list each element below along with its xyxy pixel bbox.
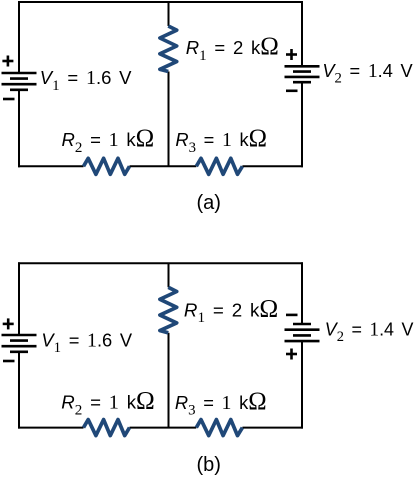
plus sign V2 (b) xyxy=(286,349,297,360)
wire right top (b) xyxy=(301,262,303,324)
minus sign V1 (b) xyxy=(3,360,15,363)
svg-text:(a): (a) xyxy=(197,192,221,214)
wire middle top (a) xyxy=(168,2,170,26)
resistor R3 (a) xyxy=(196,158,242,174)
wire left top (a) xyxy=(18,1,20,73)
battery V2 (a) xyxy=(285,66,320,82)
wire right bottom (b) xyxy=(301,341,303,429)
wire bottom middle (a) xyxy=(130,165,197,167)
battery V1 (b) xyxy=(2,335,37,352)
wire top (a) xyxy=(18,1,303,3)
wire bottom left (b) xyxy=(18,427,84,429)
svg-text:V2 = 1.4 V: V2 = 1.4 V xyxy=(325,318,415,345)
minus sign V2 (a) xyxy=(286,90,298,93)
resistor R1 (a) xyxy=(160,26,177,72)
svg-text:(b): (b) xyxy=(197,454,221,476)
resistor R1 (b) xyxy=(160,287,177,333)
battery V1 (a) xyxy=(2,73,37,90)
wire bottom right (b) xyxy=(242,427,303,429)
wire bottom middle (b) xyxy=(130,427,197,429)
wire right top (a) xyxy=(301,1,303,66)
wire bottom right (a) xyxy=(242,165,303,167)
plus sign V1 (a) xyxy=(2,56,13,67)
resistor R3 (b) xyxy=(196,420,242,436)
resistor R2 (b) xyxy=(84,420,130,436)
wire middle top (b) xyxy=(168,263,170,287)
minus sign V1 (a) xyxy=(3,98,15,101)
battery V2 (b) reversed xyxy=(285,324,320,341)
wire left top (b) xyxy=(18,262,20,335)
svg-text:V2 = 1.4 V: V2 = 1.4 V xyxy=(322,60,413,87)
svg-text:V1 = 1.6 V: V1 = 1.6 V xyxy=(41,329,132,356)
resistor R2 (a) xyxy=(84,158,130,174)
svg-text:R2 = 1 kΩ: R2 = 1 kΩ xyxy=(61,388,155,419)
svg-text:R1 = 2 kΩ: R1 = 2 kΩ xyxy=(186,33,279,64)
svg-text:V1 = 1.6 V: V1 = 1.6 V xyxy=(40,67,132,94)
wire left bottom (b) xyxy=(18,352,20,429)
wire right bottom (a) xyxy=(301,82,303,167)
svg-text:R2 = 1 kΩ: R2 = 1 kΩ xyxy=(62,125,155,156)
wire bottom left (a) xyxy=(18,165,84,167)
minus sign V2 (b) xyxy=(286,314,298,317)
plus sign V2 (a) xyxy=(286,49,297,60)
svg-text:R3 = 1 kΩ: R3 = 1 kΩ xyxy=(175,388,267,419)
wire middle bottom (a) xyxy=(168,72,170,167)
wire top (b) xyxy=(18,262,303,264)
svg-text:R1 = 2 kΩ: R1 = 2 kΩ xyxy=(184,296,278,327)
svg-text:R3 = 1 kΩ: R3 = 1 kΩ xyxy=(175,125,267,156)
wire left bottom (a) xyxy=(18,90,20,168)
wire middle bottom (b) xyxy=(168,333,170,428)
plus sign V1 (b) xyxy=(3,318,14,329)
